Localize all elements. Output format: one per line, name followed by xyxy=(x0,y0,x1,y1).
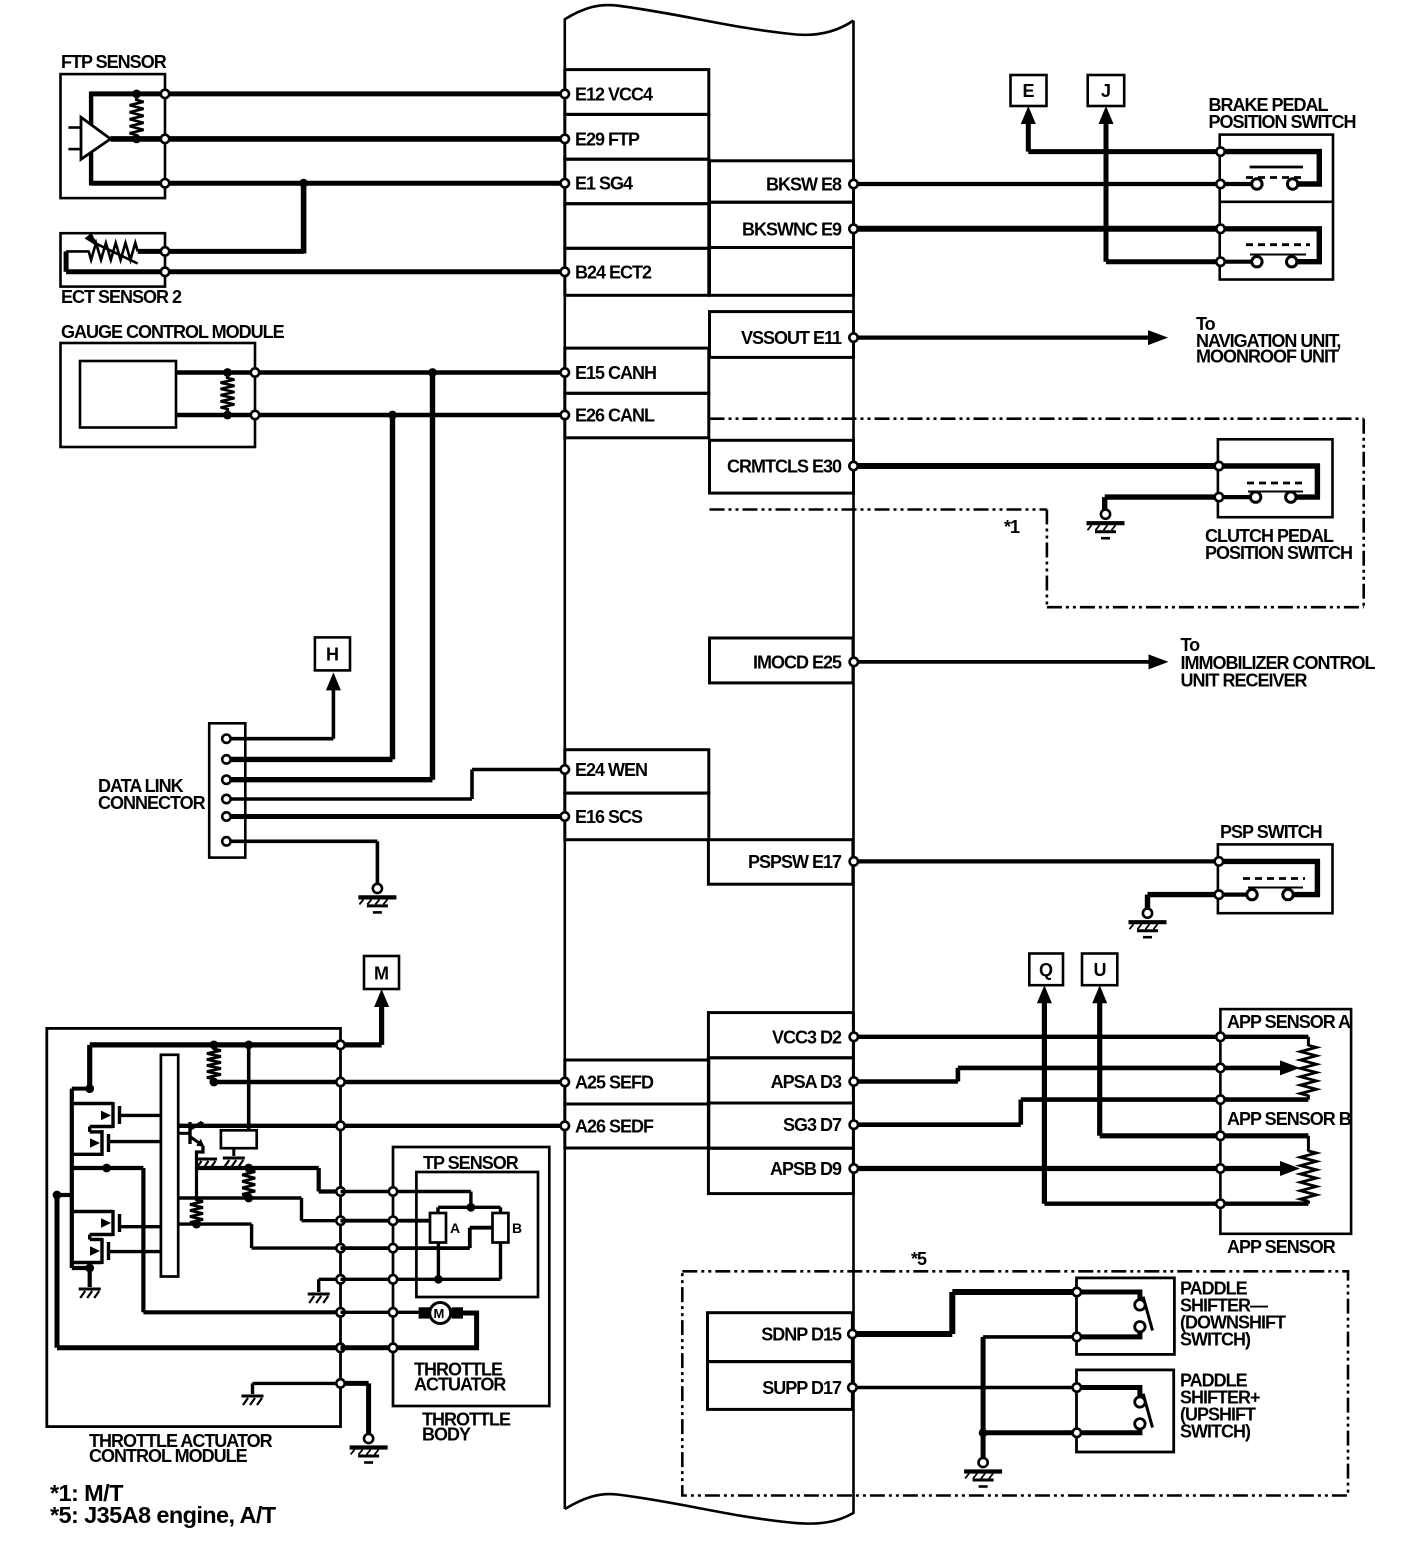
svg-text:CONNECTOR: CONNECTOR xyxy=(98,793,206,813)
svg-text:A: A xyxy=(450,1220,460,1236)
svg-text:VCC3 D2: VCC3 D2 xyxy=(772,1027,842,1047)
svg-text:IMOCD E25: IMOCD E25 xyxy=(753,652,842,672)
svg-text:APP SENSOR: APP SENSOR xyxy=(1227,1237,1336,1257)
svg-text:J: J xyxy=(1101,81,1110,101)
svg-text:PSP SWITCH: PSP SWITCH xyxy=(1220,822,1322,842)
svg-text:E24 WEN: E24 WEN xyxy=(575,760,647,780)
svg-text:SUPP D17: SUPP D17 xyxy=(762,1378,842,1398)
svg-text:B24 ECT2: B24 ECT2 xyxy=(575,262,652,282)
svg-text:E: E xyxy=(1023,81,1035,101)
svg-text:FTP SENSOR: FTP SENSOR xyxy=(61,52,167,72)
svg-text:APSA D3: APSA D3 xyxy=(771,1072,842,1092)
svg-text:ECT SENSOR 2: ECT SENSOR 2 xyxy=(61,287,182,307)
svg-text:To: To xyxy=(1181,635,1201,655)
svg-text:CONTROL MODULE: CONTROL MODULE xyxy=(89,1446,248,1466)
svg-text:POSITION SWITCH: POSITION SWITCH xyxy=(1205,543,1352,563)
svg-text:M: M xyxy=(434,1306,445,1321)
svg-text:M: M xyxy=(374,964,388,984)
svg-text:APP SENSOR A: APP SENSOR A xyxy=(1227,1012,1351,1032)
svg-text:E12 VCC4: E12 VCC4 xyxy=(575,84,653,104)
svg-text:ACTUATOR: ACTUATOR xyxy=(414,1375,506,1395)
svg-text:A26 SEDF: A26 SEDF xyxy=(575,1116,654,1136)
svg-text:B: B xyxy=(512,1220,522,1236)
svg-text:UNIT RECEIVER: UNIT RECEIVER xyxy=(1181,671,1308,691)
svg-text:BODY: BODY xyxy=(422,1425,471,1445)
svg-text:APP SENSOR B: APP SENSOR B xyxy=(1227,1109,1352,1129)
svg-text:*5: *5 xyxy=(911,1249,927,1269)
svg-text:U: U xyxy=(1094,960,1106,980)
svg-text:MOONROOF UNIT: MOONROOF UNIT xyxy=(1196,347,1339,367)
svg-text:SWITCH): SWITCH) xyxy=(1180,1422,1251,1442)
svg-text:BKSW E8: BKSW E8 xyxy=(766,175,842,195)
svg-text:A25 SEFD: A25 SEFD xyxy=(575,1073,654,1093)
svg-text:*5: J35A8 engine, A/T: *5: J35A8 engine, A/T xyxy=(50,1502,277,1528)
svg-text:E1 SG4: E1 SG4 xyxy=(575,174,633,194)
svg-text:SWITCH): SWITCH) xyxy=(1180,1330,1251,1350)
svg-text:E26 CANL: E26 CANL xyxy=(575,406,655,426)
svg-text:APSB D9: APSB D9 xyxy=(770,1159,842,1179)
svg-text:SG3 D7: SG3 D7 xyxy=(783,1115,842,1135)
svg-text:SDNP D15: SDNP D15 xyxy=(761,1325,842,1345)
svg-text:PSPSW E17: PSPSW E17 xyxy=(748,852,842,872)
svg-text:E29 FTP: E29 FTP xyxy=(575,129,640,149)
svg-text:CRMTCLS E30: CRMTCLS E30 xyxy=(727,457,842,477)
svg-text:Q: Q xyxy=(1039,960,1053,980)
svg-text:E16 SCS: E16 SCS xyxy=(575,807,643,827)
svg-text:TP SENSOR: TP SENSOR xyxy=(423,1153,519,1173)
svg-text:E15 CANH: E15 CANH xyxy=(575,363,656,383)
svg-text:POSITION SWITCH: POSITION SWITCH xyxy=(1209,112,1356,132)
svg-text:H: H xyxy=(326,645,338,665)
svg-text:VSSOUT E11: VSSOUT E11 xyxy=(741,328,842,348)
svg-text:GAUGE CONTROL MODULE: GAUGE CONTROL MODULE xyxy=(61,322,285,342)
svg-text:*1: *1 xyxy=(1004,517,1020,537)
svg-text:BKSWNC E9: BKSWNC E9 xyxy=(742,219,842,239)
